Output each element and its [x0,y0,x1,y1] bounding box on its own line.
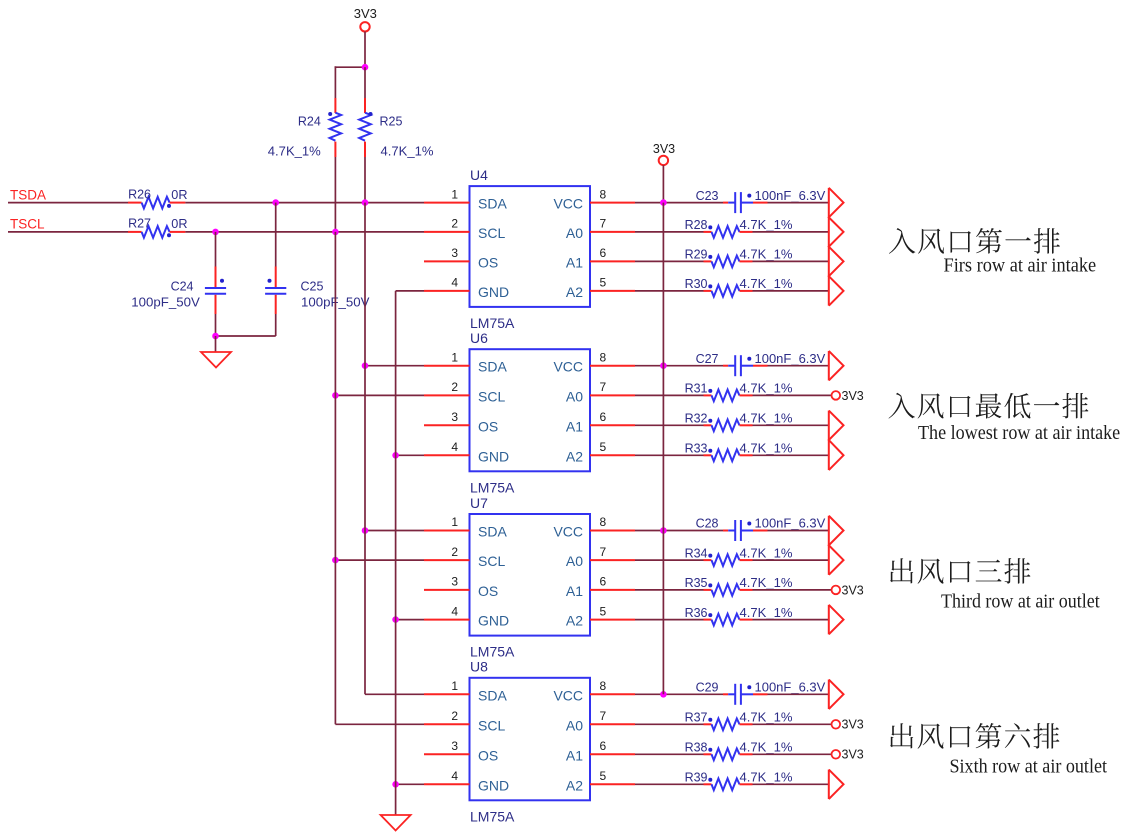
svg-text:SDA: SDA [478,524,507,540]
power 3V3 at R35 [832,583,864,597]
ground bottom [381,815,411,831]
svg-text:C23: C23 [696,189,719,203]
wire [215,336,217,352]
svg-text:TSCL: TSCL [10,217,45,232]
connector arrow U7 A2 [829,605,844,635]
wire [275,203,277,267]
net label TSCL [10,217,45,232]
svg-text:A1: A1 [566,747,583,763]
op-amp U6 (LM75A) [470,330,591,495]
svg-text:SCL: SCL [478,717,505,733]
capacitor C28 [696,517,826,541]
svg-text:3: 3 [451,739,458,753]
resistor R33 [685,442,793,462]
node TSCL-SCL bus [332,229,339,236]
connector arrows U6 A1-A2 [829,411,844,471]
svg-text:4.7K_1%: 4.7K_1% [740,218,793,232]
svg-text:100nF_6.3V: 100nF_6.3V [755,189,826,203]
resistor R31 [685,382,793,402]
wire [753,290,829,292]
svg-text:GND: GND [478,284,509,300]
wire [635,454,704,456]
svg-text:1: 1 [451,187,458,201]
ground [201,352,231,368]
svg-text:R35: R35 [685,576,708,590]
svg-text:R38: R38 [685,741,708,755]
svg-text:6: 6 [600,246,607,260]
resistor R27 [128,217,188,238]
node TSCL-C24 [212,229,219,236]
svg-text:R37: R37 [685,711,708,725]
wire [365,693,424,695]
svg-text:U6: U6 [470,330,488,346]
wire [635,693,723,695]
svg-text:R31: R31 [685,382,708,396]
svg-text:4.7K_1%: 4.7K_1% [740,382,793,396]
wire [396,454,424,456]
resistor R32 [685,412,793,432]
svg-text:4.7K_1%: 4.7K_1% [740,277,793,291]
resistor R36 [685,606,793,626]
svg-text:VCC: VCC [553,687,583,703]
power 3V3 at R37 [832,718,864,732]
svg-text:6: 6 [600,739,607,753]
resistor R38 [685,741,793,761]
node SDA bus U7 [362,527,369,534]
node VCC bus U4 [660,199,667,206]
svg-text:2: 2 [451,380,458,394]
svg-text:VCC: VCC [553,359,583,375]
svg-text:4.7K_1%: 4.7K_1% [740,741,793,755]
resistor R24 [268,98,341,159]
wire [215,314,217,336]
svg-text:R30: R30 [685,277,708,291]
node SCL bus U7 [332,557,339,564]
svg-text:4.7K_1%: 4.7K_1% [740,248,793,262]
wire [753,783,829,785]
connector arrow U8 A2 [829,770,844,800]
node cap-gnd junction [212,333,219,340]
svg-text:Third row at air outlet: Third row at air outlet [941,590,1100,612]
pins U4 [424,187,635,291]
node GND bus U6 [392,452,399,459]
wire [635,424,704,426]
wire [635,530,723,532]
wire [365,530,424,532]
capacitor C24 [131,267,226,315]
wire [753,231,829,233]
svg-text:100pF_50V: 100pF_50V [131,295,200,309]
svg-text:7: 7 [600,545,607,559]
svg-text:OS: OS [478,254,498,270]
wire [365,365,424,367]
svg-text:4.7K_1%: 4.7K_1% [740,606,793,620]
svg-text:4.7K_1%: 4.7K_1% [740,711,793,725]
resistor R30 [685,277,793,297]
wire [335,394,424,396]
svg-text:OS: OS [478,583,498,599]
svg-text:R25: R25 [380,114,403,128]
svg-text:3V3: 3V3 [842,583,864,597]
svg-text:4: 4 [451,604,458,618]
svg-text:4.7K_1%: 4.7K_1% [381,145,434,159]
svg-text:U7: U7 [470,495,488,511]
resistor R28 [685,218,793,238]
svg-text:VCC: VCC [553,196,583,212]
svg-text:A0: A0 [566,225,583,241]
svg-text:OS: OS [478,418,498,434]
svg-text:R27: R27 [128,217,151,231]
wire [275,314,277,336]
power 3V3 at R38 [832,748,864,762]
svg-text:100nF_6.3V: 100nF_6.3V [755,352,826,366]
node TSDA-C25 [272,199,279,206]
wire [364,67,366,98]
node SDA bus U6 [362,362,369,369]
wire [753,619,829,621]
svg-text:1: 1 [451,679,458,693]
wire [364,32,366,68]
wire [635,559,704,561]
svg-text:2: 2 [451,709,458,723]
svg-text:The lowest row at air intake: The lowest row at air intake [918,422,1120,444]
wire [8,202,128,204]
wire [635,290,704,292]
connector arrow U6 VCC [829,351,844,381]
wire [185,202,424,204]
svg-text:A0: A0 [566,717,583,733]
annotation row3 English [941,590,1100,612]
svg-text:8: 8 [600,515,607,529]
svg-text:100nF_6.3V: 100nF_6.3V [755,681,826,695]
svg-text:4.7K_1%: 4.7K_1% [740,442,793,456]
svg-text:2: 2 [451,545,458,559]
annotation row4 Chinese [890,723,1059,749]
svg-text:6: 6 [600,575,607,589]
svg-text:SCL: SCL [478,388,505,404]
wire [662,165,664,202]
resistor R35 [685,576,793,596]
svg-text:R34: R34 [685,546,708,560]
net label TSDA [10,187,46,202]
node 3V3 junction [362,64,369,71]
svg-text:1: 1 [451,515,458,529]
pins U6 [424,350,635,455]
wire [753,753,832,755]
svg-text:SDA: SDA [478,359,507,375]
wire [335,559,424,561]
wire [635,202,723,204]
svg-text:2: 2 [451,217,458,231]
annotation row1 Chinese [889,228,1060,254]
svg-text:A2: A2 [566,448,583,464]
svg-text:4.7K_1%: 4.7K_1% [740,412,793,426]
svg-text:OS: OS [478,747,498,763]
svg-text:LM75A: LM75A [470,315,515,331]
svg-text:LM75A: LM75A [470,479,515,495]
node GND bus U7 [392,616,399,623]
annotation row1 English [944,255,1097,277]
wire [768,365,829,367]
node SCL bus U6 [332,392,339,399]
pins U8 [424,679,635,784]
svg-text:6: 6 [600,410,607,424]
wire [635,723,704,725]
wire [215,232,217,267]
svg-text:LM75A: LM75A [470,808,515,824]
svg-text:R24: R24 [298,114,321,128]
svg-text:TSDA: TSDA [10,187,46,202]
wire [334,66,336,98]
connector arrows U4 [829,188,844,306]
svg-text:SCL: SCL [478,553,505,569]
power 3V3 at R31 [832,389,864,403]
svg-text:VCC: VCC [553,524,583,540]
svg-text:C28: C28 [696,517,719,531]
svg-text:3V3: 3V3 [842,389,864,403]
wire [753,424,829,426]
svg-text:R29: R29 [685,248,708,262]
node VCC bus U7 [660,527,667,534]
svg-text:5: 5 [600,769,607,783]
svg-text:A1: A1 [566,254,583,270]
wire [768,530,829,532]
wire [185,231,424,233]
svg-text:U8: U8 [470,659,488,675]
power 3V3 right [653,142,675,165]
svg-text:3V3: 3V3 [842,718,864,732]
resistor R37 [685,711,793,731]
wire [753,559,829,561]
svg-text:8: 8 [600,679,607,693]
capacitor C23 [696,189,826,213]
wire [396,290,424,292]
wire [335,66,366,68]
svg-text:Firs row at air intake: Firs row at air intake [944,255,1097,277]
svg-text:U4: U4 [470,167,488,183]
svg-text:A2: A2 [566,777,583,793]
node VCC bus U6 [660,362,667,369]
op-amp U8 (LM75A) [470,659,591,825]
svg-text:LM75A: LM75A [470,644,515,660]
svg-text:3V3: 3V3 [354,6,377,21]
wire [635,753,704,755]
wire [635,231,704,233]
wire [8,231,128,233]
svg-text:C24: C24 [171,280,194,294]
wire [635,365,723,367]
svg-text:4.7K_1%: 4.7K_1% [740,576,793,590]
svg-text:C25: C25 [301,280,324,294]
svg-text:1: 1 [451,350,458,364]
node TSDA-SDA bus [362,199,369,206]
wire SDA bus [364,203,366,695]
wire 3V3 bus [662,203,664,695]
svg-text:A2: A2 [566,284,583,300]
capacitor C25 [265,267,370,315]
svg-text:3: 3 [451,246,458,260]
svg-text:R32: R32 [685,412,708,426]
svg-text:8: 8 [600,187,607,201]
wire [753,454,829,456]
svg-text:SDA: SDA [478,687,507,703]
svg-text:A1: A1 [566,418,583,434]
wire [768,202,829,204]
wire SCL bus [334,232,336,724]
svg-text:100nF_6.3V: 100nF_6.3V [755,517,826,531]
resistor R39 [685,771,793,791]
pins U7 [424,515,635,619]
svg-text:R36: R36 [685,606,708,620]
wire [335,723,424,725]
svg-text:7: 7 [600,380,607,394]
svg-text:A2: A2 [566,613,583,629]
wire [216,335,276,337]
svg-text:5: 5 [600,604,607,618]
svg-text:GND: GND [478,448,509,464]
connector arrows U7 VCC-A0 [829,516,844,575]
wire [635,394,704,396]
svg-text:R26: R26 [128,187,151,201]
svg-text:R39: R39 [685,771,708,785]
svg-text:5: 5 [600,440,607,454]
annotation row2 Chinese [889,393,1089,419]
svg-text:C29: C29 [696,681,719,695]
svg-text:4: 4 [451,440,458,454]
svg-text:A1: A1 [566,583,583,599]
resistor R25 [359,98,433,159]
svg-text:GND: GND [478,613,509,629]
wire [635,589,704,591]
wire [753,589,832,591]
svg-text:SCL: SCL [478,225,505,241]
annotation row3 Chinese [890,558,1030,584]
svg-text:3V3: 3V3 [653,142,675,156]
svg-text:3: 3 [451,575,458,589]
wire [334,157,336,232]
wire [768,693,829,695]
connector arrow U8 VCC [829,680,844,710]
svg-text:GND: GND [478,777,509,793]
svg-text:3V3: 3V3 [842,748,864,762]
svg-text:R33: R33 [685,442,708,456]
svg-text:4: 4 [451,276,458,290]
resistor R29 [685,248,793,268]
svg-text:R28: R28 [685,218,708,232]
wire [635,783,704,785]
wire GND bus [395,291,397,815]
svg-text:4.7K_1%: 4.7K_1% [740,546,793,560]
op-amp U7 (LM75A) [470,495,591,660]
annotation row2 English [918,422,1120,444]
wire [753,394,832,396]
svg-text:SDA: SDA [478,196,507,212]
svg-text:4.7K_1%: 4.7K_1% [268,145,321,159]
capacitor C29 [696,681,826,705]
svg-text:0R: 0R [171,188,187,202]
svg-text:A0: A0 [566,553,583,569]
resistor R26 [128,187,188,208]
svg-text:5: 5 [600,276,607,290]
capacitor C27 [696,352,826,376]
svg-text:7: 7 [600,709,607,723]
svg-text:3: 3 [451,410,458,424]
wire [396,783,424,785]
wire [753,723,832,725]
wire [635,619,704,621]
annotation row4 English [950,755,1108,777]
svg-text:4: 4 [451,769,458,783]
node VCC bus U8 [660,691,667,698]
svg-text:4.7K_1%: 4.7K_1% [740,771,793,785]
wire [753,260,829,262]
wire [364,157,366,203]
svg-text:8: 8 [600,350,607,364]
svg-text:0R: 0R [171,217,187,231]
svg-text:Sixth row at air outlet: Sixth row at air outlet [950,755,1108,777]
op-amp U4 (LM75A) [470,167,591,331]
wire [396,619,424,621]
resistor R34 [685,546,793,566]
power 3V3 top [354,6,377,31]
node GND bus U8 [392,781,399,788]
svg-text:7: 7 [600,217,607,231]
svg-text:A0: A0 [566,388,583,404]
wire [635,260,704,262]
svg-text:C27: C27 [696,352,719,366]
